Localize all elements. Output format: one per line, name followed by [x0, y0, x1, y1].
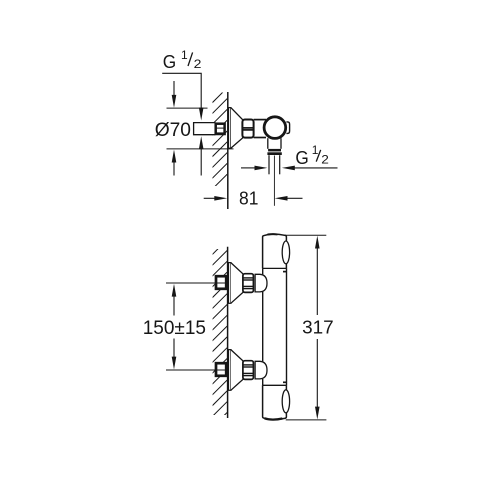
hose center extension line	[273, 156, 275, 206]
supply nipple pipe (top view)	[194, 123, 216, 135]
outlet port below valve body	[267, 138, 269, 149]
bottom handle side ellipse	[282, 390, 289, 413]
outlet union nut band 1	[268, 149, 281, 152]
lower connection center extension line	[166, 369, 226, 371]
dimension 317 top arrow	[315, 236, 320, 249]
svg-text:G: G	[163, 52, 176, 72]
slash of top G 1/2	[188, 52, 193, 66]
arrow up to pipe bottom with shaft	[199, 136, 204, 149]
dimension 317 bottom arrow	[316, 339, 318, 407]
valve body circle (top view)	[264, 117, 286, 139]
slash of hose G 1/2	[316, 150, 321, 162]
bottom handle top line	[263, 384, 287, 386]
upper escutcheon rim	[229, 263, 231, 304]
top handle side ellipse	[282, 241, 289, 264]
bar column right edge	[286, 268, 288, 385]
escutcheon rim (top view)	[229, 108, 231, 149]
svg-text:150±15: 150±15	[143, 318, 206, 339]
dimension 81: right arrow	[275, 196, 288, 201]
lower escutcheon cone	[231, 350, 243, 391]
connecting cylinder (top view)	[254, 119, 266, 121]
svg-text:1: 1	[181, 48, 188, 62]
svg-text:1: 1	[312, 143, 319, 157]
upper hex fitting in wall	[216, 276, 226, 289]
top temperature handle	[263, 234, 287, 268]
bottom handle heavy bottom arc	[265, 418, 283, 419]
arrow down to pipe top	[199, 108, 204, 121]
leader line from G 1/2 label	[162, 73, 201, 108]
dimension G 1/2 hose: left arrow	[241, 167, 255, 169]
upper union nut	[243, 274, 254, 293]
Ø70 top extension line	[167, 107, 208, 109]
dimension 317 top extension line	[284, 234, 327, 236]
upper connection boss (bump)	[255, 274, 267, 292]
lower escutcheon rim	[229, 350, 231, 391]
top handle peak accent	[268, 233, 278, 235]
svg-text:2: 2	[194, 57, 202, 71]
upper connection center extension line	[166, 282, 226, 284]
wall line (top view)	[227, 92, 229, 209]
top handle bottom line	[263, 267, 287, 269]
svg-text:G: G	[295, 148, 308, 168]
Ø70 upper arrow	[172, 95, 177, 108]
Ø70 lower shaft	[173, 162, 175, 176]
dimension G 1/2 hose: right arrow with shelf	[282, 166, 295, 171]
dimension 150±15 lower arrow	[173, 339, 175, 358]
dimension Ø70 upper shaft	[173, 81, 175, 96]
svg-text:2: 2	[321, 153, 329, 167]
dimension 317 bottom extension line	[286, 419, 327, 421]
Ø70 bottom extension line	[167, 148, 234, 150]
tick below top handle	[283, 271, 287, 273]
hose stub	[268, 155, 270, 174]
temperature knob cap (right of valve body)	[286, 122, 289, 133]
upper escutcheon cone	[231, 263, 243, 304]
Ø70 lower arrow	[172, 150, 177, 163]
svg-text:Ø70: Ø70	[155, 120, 191, 141]
union nut (top view)	[242, 120, 253, 138]
wall line (front view)	[227, 247, 229, 418]
svg-text:81: 81	[239, 188, 258, 209]
wall hatching (top view)	[212, 77, 228, 190]
lower connection boss (bump)	[255, 361, 267, 379]
bar column left edge segments	[262, 268, 264, 274]
svg-text:317: 317	[302, 316, 334, 337]
hex fitting in wall (top view)	[216, 124, 225, 134]
bottom handle	[263, 385, 287, 419]
label G 1/2 (top supply thread)	[163, 48, 202, 72]
label G 1/2 (hose thread)	[295, 143, 329, 168]
dimension 150±15 upper arrow	[172, 284, 177, 297]
outlet union nut band 2	[267, 152, 281, 155]
dimension 81: left arrow	[204, 197, 215, 199]
escutcheon cone (top view)	[231, 108, 243, 149]
lower union nut	[243, 361, 254, 380]
wall hatching (front view)	[212, 240, 228, 428]
tick above bottom handle	[283, 381, 287, 383]
lower hex fitting in wall	[216, 363, 226, 376]
